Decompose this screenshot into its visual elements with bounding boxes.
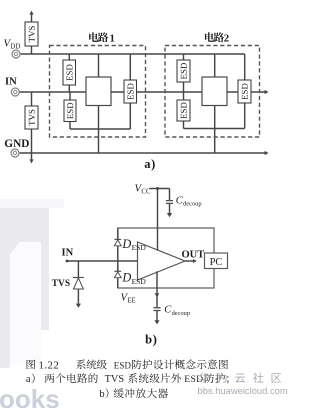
wire ESD4 shunt [183,54,185,92]
label circuit 2 [205,32,214,42]
caption line 3 [99,388,168,400]
circuit 1 dashed boundary [50,46,146,138]
svg-text:1: 1 [110,32,115,44]
wire circuit2 OUT [227,91,266,93]
wire TVS3 branch [77,261,79,304]
wire circuit1 OUT to circuit2 IN [111,91,202,93]
wire core2 VSS pin to GND [214,106,216,154]
label circuit 1 [89,32,98,42]
amplifier IC boundary box U1 [118,228,214,288]
wire VDD rail [19,53,244,55]
arrow chassis up [29,11,33,15]
terminal VDD [12,50,20,58]
wire VEE [156,271,158,307]
svg-text:Cdecoup: Cdecoup [176,196,202,208]
caption line 2 [26,373,229,385]
wire circuit2 internal bus [184,128,245,130]
wire ESD diode chain [117,228,119,288]
capacitor C1 Cdecoup plates [166,201,173,204]
svg-text:a): a) [144,157,156,171]
svg-text:Cdecoup: Cdecoup [164,305,190,317]
svg-text:VDD: VDD [4,38,21,51]
core block of circuit 2 [202,77,227,106]
ESD cell E3 [124,80,137,103]
svg-text:VEE: VEE [121,291,136,304]
arrow OUT [265,90,269,94]
arrow VEE pin [155,293,160,297]
svg-text:bbs.huaweicloud.com: bbs.huaweicloud.com [198,385,288,396]
svg-text:PC: PC [210,257,223,268]
wire ESD3 shunt [129,54,131,129]
wire ESD1 shunt [68,54,70,92]
TVS T2 [25,106,38,129]
diode D1 DESD upper [114,239,121,245]
svg-text:DESD: DESD [121,271,146,286]
core block of circuit 1 [86,77,111,106]
svg-text:b): b) [145,332,158,346]
svg-text:2: 2 [224,32,229,44]
ESD cell E4 [177,60,190,82]
wire circuit1 internal bus [70,128,130,130]
caption line 1 [27,359,228,371]
TVS diode D3 [73,278,84,290]
wire TVS1 branch [31,14,33,54]
diode D2 DESD lower [114,271,121,277]
arrow chassis down [29,159,33,163]
arrow GND [265,151,269,155]
circuit 2 dashed boundary [165,46,260,138]
svg-text:VCC: VCC [135,183,151,196]
svg-text:ESD: ESD [114,360,132,370]
svg-text:TVS: TVS [105,374,125,385]
wire to C1 [169,189,171,201]
wire OUT [185,260,194,262]
PC block [205,253,228,269]
ground symbol 1 [167,213,172,217]
ground symbol 2 [76,304,81,308]
wire ESD2 shunt [69,92,71,129]
terminal IN [11,88,19,96]
capacitor C2 Cdecoup plates [153,308,160,311]
svg-text:b: b [99,389,104,400]
wire IN net [19,91,86,93]
junction VCC [156,187,159,190]
wire C2 to ground [156,311,158,321]
wire TVS2 branch [31,92,33,160]
node IN dot [66,260,69,263]
svg-text:1.22: 1.22 [39,359,60,371]
svg-text:DESD: DESD [121,237,146,252]
arrow OUT to PC [193,259,197,263]
svg-text:ooks: ooks [0,384,60,408]
ESD cell E1 [63,60,76,85]
wire ESD6 shunt (VDD to bus) [244,54,246,129]
wire VCC to amplifier [157,189,159,251]
wire core1 VDD pin [98,54,100,77]
op-amp buffer A1 [138,242,186,280]
ESD cell E6 [238,80,251,103]
wire core1 VSS pin to GND [98,106,100,154]
TVS T1 [25,22,38,46]
wire C1 to ground [169,203,171,213]
wire VCC node [150,188,170,190]
wire core2 VDD pin [214,54,216,77]
svg-text:OUT: OUT [182,250,205,261]
ESD cell E5 [177,100,190,121]
wire IN to op-amp [67,260,138,262]
svg-text:IN: IN [5,76,17,87]
svg-text:IN: IN [62,247,74,258]
terminal GND [11,149,19,157]
svg-text:TVS: TVS [52,279,70,289]
ground symbol 3 [154,320,159,324]
ESD cell E2 [64,100,76,122]
wire ESD5 shunt [183,92,185,129]
wire GND rail [18,152,265,154]
svg-text:GND: GND [4,138,29,150]
